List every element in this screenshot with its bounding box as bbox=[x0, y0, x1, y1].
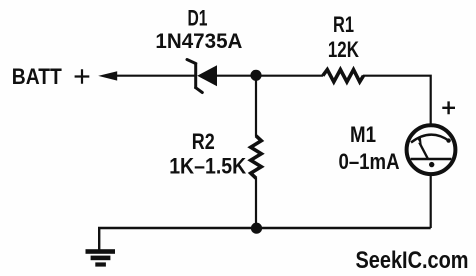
svg-text:BATT: BATT bbox=[12, 64, 62, 89]
diode D1 (zener 1N4735A) bbox=[187, 60, 217, 93]
svg-text:1K–1.5K: 1K–1.5K bbox=[169, 153, 246, 178]
wire R1 to meter (top right corner) bbox=[363, 76, 431, 125]
svg-text:0–1mA: 0–1mA bbox=[339, 149, 400, 174]
node top junction bbox=[250, 70, 261, 81]
svg-text:R2: R2 bbox=[192, 129, 215, 154]
svg-text:M1: M1 bbox=[350, 122, 376, 147]
label + meter polarity bbox=[442, 101, 455, 114]
wire R2 branch lower bbox=[255, 178, 257, 229]
resistor R2 bbox=[251, 136, 262, 178]
wire BATT arrow to D1 bbox=[98, 71, 195, 80]
label BATT + bbox=[12, 64, 90, 89]
svg-text:12K: 12K bbox=[328, 37, 359, 62]
meter M1 bbox=[407, 125, 456, 174]
svg-text:R1: R1 bbox=[333, 12, 354, 37]
wire D1 to R1 bbox=[216, 75, 323, 77]
resistor R1 bbox=[323, 70, 364, 82]
wire bottom horizontal bbox=[99, 228, 431, 250]
svg-text:D1: D1 bbox=[188, 6, 208, 31]
svg-text:SeekIC.com: SeekIC.com bbox=[356, 247, 469, 274]
wire meter to bottom right corner bbox=[430, 175, 432, 229]
svg-text:1N4735A: 1N4735A bbox=[155, 30, 242, 53]
wire R2 branch upper bbox=[255, 76, 257, 137]
ground bbox=[86, 249, 116, 266]
node bottom junction bbox=[251, 223, 262, 234]
